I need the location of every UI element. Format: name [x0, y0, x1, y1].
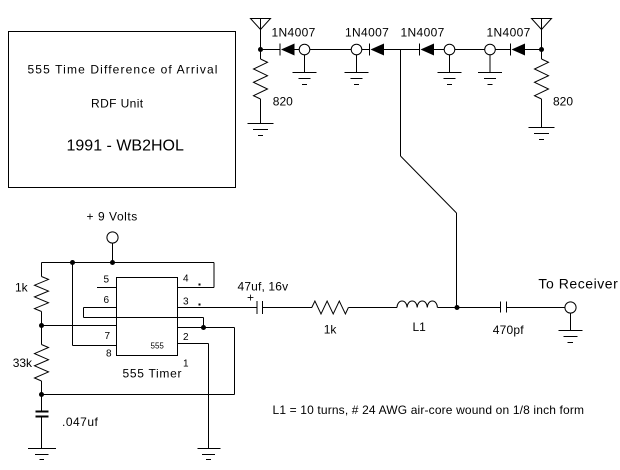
wire: R 1k to L1 — [348, 307, 397, 309]
diode D4 1N4007 — [511, 44, 526, 56]
antenna ANT1 (left) — [251, 19, 271, 30]
ground (left 820) — [248, 124, 274, 136]
ground (pin 1) — [198, 449, 221, 460]
svg-text:RDF Unit: RDF Unit — [91, 97, 144, 111]
ground (circle 1) — [293, 55, 317, 85]
wire: pin 8 to Vcc rail — [73, 263, 117, 346]
connector circle node 3 — [444, 44, 455, 55]
wire: R 1k to junction — [41, 312, 43, 345]
svg-text:470pf: 470pf — [493, 323, 524, 337]
stray dot near pin 3 — [199, 304, 201, 306]
ground (receiver) — [559, 331, 583, 343]
diode D3 1N4007 — [420, 44, 435, 56]
wire: C 470pf to receiver jack — [507, 307, 565, 309]
junction: 33k/.047uf/pin2 net — [39, 392, 44, 397]
junction: pin6/pin2 — [201, 325, 206, 330]
svg-text:To Receiver: To Receiver — [538, 276, 618, 292]
ground (.047uf) — [28, 449, 56, 460]
wire: C .047uf to ground — [41, 418, 43, 449]
stray dot near pin 4 — [199, 284, 201, 286]
svg-text:820: 820 — [553, 95, 573, 109]
svg-text:8: 8 — [106, 349, 112, 360]
battery terminal circle — [107, 232, 118, 243]
antenna ANT2 (right) — [532, 19, 552, 30]
connector circle node 1 — [299, 44, 310, 55]
wire: R 820 left to ground — [260, 99, 262, 124]
junction: Vcc / battery — [110, 260, 115, 265]
wire: C 47uf to R 1k — [263, 307, 312, 309]
ground (circle 2) — [345, 55, 369, 85]
wire: pin 2 to timing node — [42, 328, 235, 395]
svg-text:+: + — [247, 291, 254, 305]
svg-text:3: 3 — [183, 297, 189, 308]
junction: mixer node — [455, 305, 460, 310]
wire: bus tap to mixer node (long link) — [401, 50, 457, 308]
svg-text:1: 1 — [183, 359, 189, 370]
svg-text:4: 4 — [183, 274, 189, 285]
ground (circle 4) — [478, 55, 502, 85]
wire: D4 to right antenna node — [525, 49, 542, 51]
svg-text:555: 555 — [151, 342, 165, 351]
wire: circle 1 to circle 2 — [310, 49, 351, 51]
wire: circle 2 to D2 — [362, 49, 369, 51]
connector circle node 2 — [351, 44, 362, 55]
wire: L1 to C 470pf — [437, 307, 500, 309]
svg-text:2: 2 — [183, 332, 189, 343]
wire: R 820 right to ground — [541, 99, 543, 128]
wire: pin 7 to 1k/33k junction — [42, 325, 117, 327]
wire: circle 3 to circle 4 — [455, 49, 485, 51]
connector circle node 4 — [485, 44, 496, 55]
capacitor C 470pf — [501, 302, 507, 313]
wire: Vcc bus — [42, 262, 215, 264]
svg-text:33k: 33k — [13, 356, 33, 370]
resistor R 820 (right) — [535, 59, 549, 99]
wire: left node down to R 820 — [260, 50, 262, 60]
svg-text:555 Timer: 555 Timer — [123, 367, 183, 381]
junction: Vcc / pin8 rail — [70, 260, 75, 265]
svg-text:+ 9 Volts: + 9 Volts — [87, 210, 138, 224]
connector circle (receiver jack) — [565, 302, 576, 313]
inductor L1 — [397, 301, 437, 308]
diode D1 1N4007 — [280, 44, 295, 56]
svg-text:.047uf: .047uf — [62, 415, 99, 429]
wire: left antenna mast — [260, 19, 262, 50]
resistor R 1k (output) — [312, 301, 349, 314]
capacitor C .047uf — [36, 412, 49, 417]
junction: 1k/33k/pin7 — [39, 323, 44, 328]
wire: R 33k to junction — [41, 381, 43, 411]
wire: D3 to connector circle 3 — [434, 49, 444, 51]
svg-text:820: 820 — [273, 95, 293, 109]
svg-text:1N4007: 1N4007 — [487, 26, 531, 40]
ground (right 820) — [529, 128, 555, 140]
svg-text:L1 = 10 turns, # 24 AWG air-co: L1 = 10 turns, # 24 AWG air-core wound o… — [273, 403, 585, 417]
wire: receiver jack to ground — [570, 313, 572, 331]
junction: left antenna node — [258, 47, 263, 52]
wire: right node down to R 820 — [541, 50, 543, 60]
svg-text:1k: 1k — [15, 281, 29, 295]
resistor R 1k (left rail) — [35, 277, 49, 312]
wire: D1 to connector circle 1 — [295, 49, 300, 51]
svg-text:555 Time Difference of Arrival: 555 Time Difference of Arrival — [28, 63, 219, 77]
wire: pin 1 to ground — [178, 344, 209, 449]
svg-text:47uf, 16v: 47uf, 16v — [238, 280, 289, 294]
wire: right antenna mast — [541, 19, 543, 50]
svg-text:1N4007: 1N4007 — [401, 26, 445, 40]
wire: pin 4 to Vcc bus — [178, 263, 215, 288]
wire: battery to Vcc bus — [112, 243, 114, 263]
svg-text:1N4007: 1N4007 — [345, 26, 389, 40]
wire: Vcc bus down to R 1k — [41, 263, 43, 277]
svg-text:7: 7 — [105, 331, 111, 342]
svg-text:1k: 1k — [324, 323, 338, 337]
resistor R 820 (left) — [254, 59, 268, 99]
wire: pin 6 loop to pin 2 — [84, 308, 204, 328]
resistor R 33k — [35, 345, 49, 382]
svg-text:5: 5 — [104, 275, 110, 286]
title box — [9, 32, 236, 188]
wire: bus antenna to D1 — [261, 49, 280, 51]
wire: pin 3 to C 47uf — [178, 307, 257, 309]
wire: circle 4 to D4 — [496, 49, 511, 51]
wire: pin 5 stub — [97, 287, 117, 289]
svg-text:L1: L1 — [413, 320, 427, 334]
svg-text:1N4007: 1N4007 — [272, 26, 316, 40]
capacitor C 47uf — [257, 301, 263, 314]
IC U1 555 box — [117, 278, 178, 356]
ground (circle 3) — [438, 55, 462, 85]
svg-text:6: 6 — [104, 295, 110, 306]
junction: right antenna node — [539, 47, 544, 52]
wire: D2 to D3 (through tap) — [384, 49, 419, 51]
svg-text:1991 - WB2HOL: 1991 - WB2HOL — [67, 138, 184, 155]
diode D2 1N4007 — [370, 44, 385, 56]
